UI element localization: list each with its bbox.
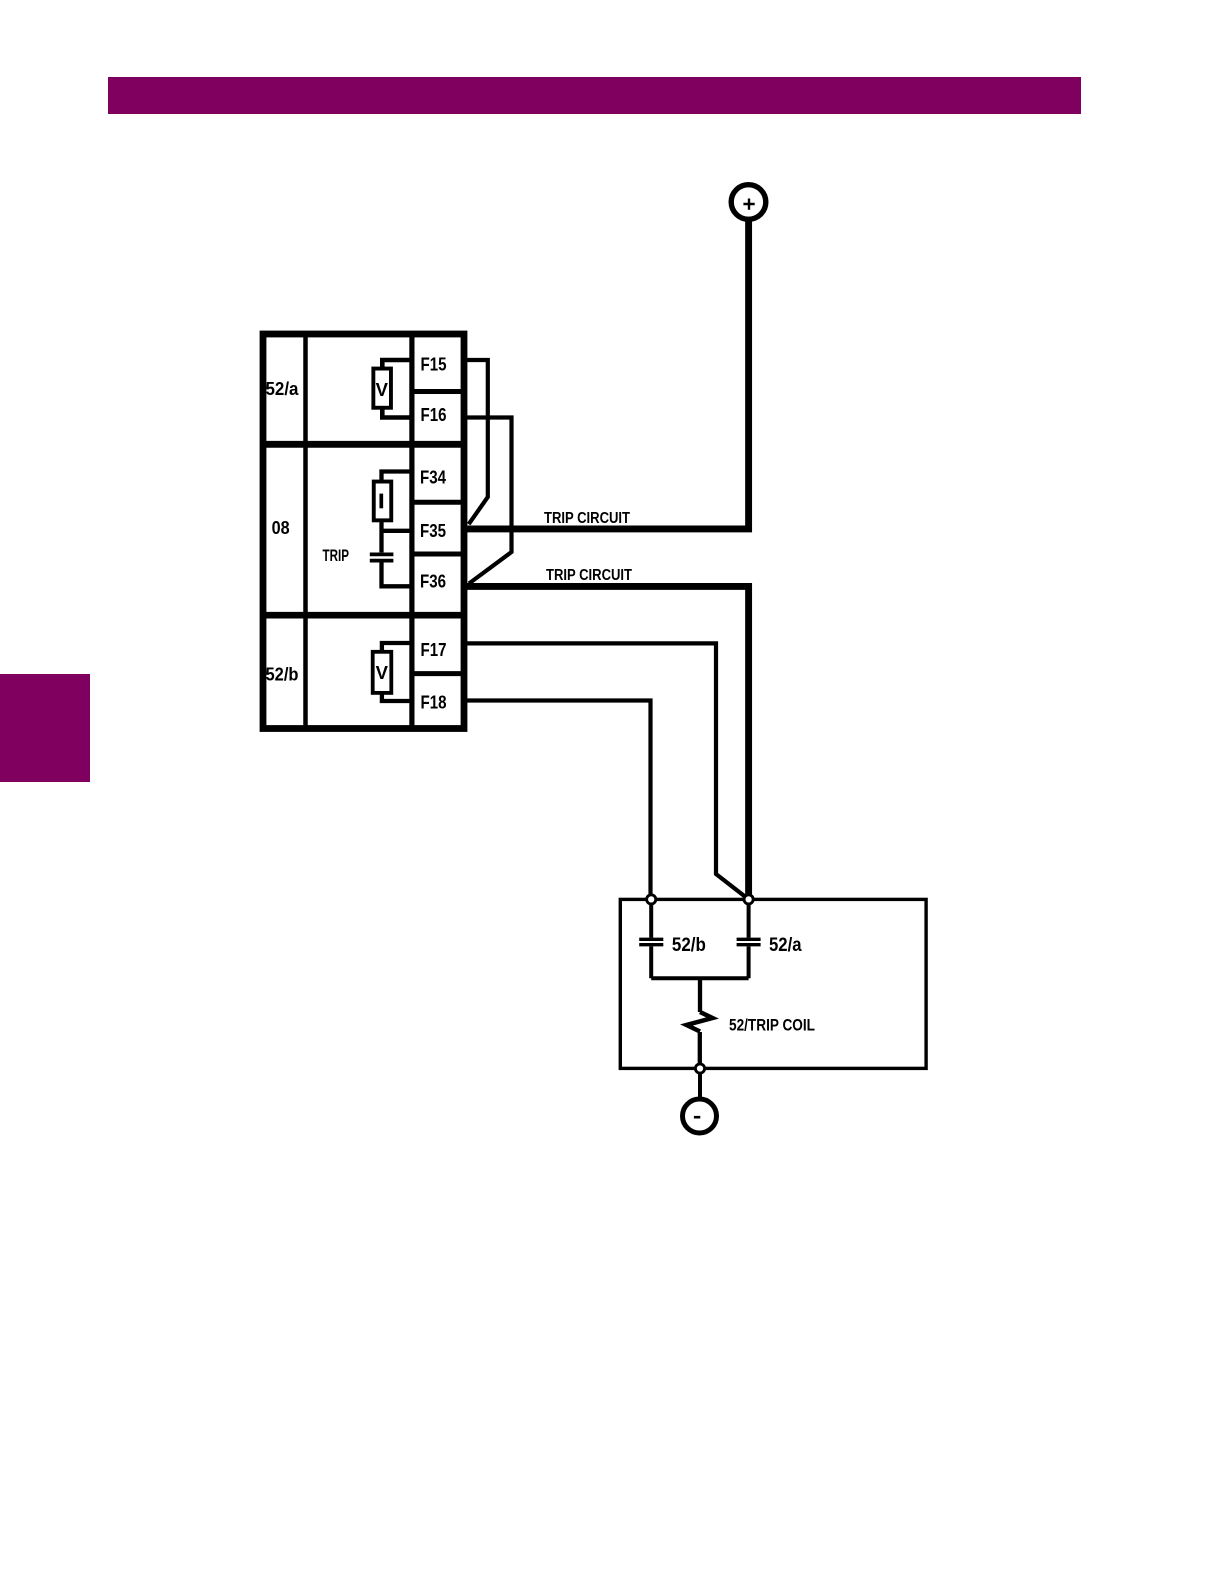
- contact 52/a plates: [737, 938, 761, 941]
- contact 52/b plates: [639, 938, 663, 941]
- wire F18 to 52/b node: [464, 701, 651, 898]
- svg-text:V: V: [376, 379, 389, 400]
- coil I letter: [379, 494, 383, 509]
- row divider 08|52/b: [260, 612, 467, 619]
- svg-text:F16: F16: [421, 405, 447, 425]
- svg-text:TRIP: TRIP: [323, 547, 350, 565]
- coil V lower (52/b): [373, 652, 392, 693]
- wire F15 to F35 junction: [464, 360, 488, 524]
- svg-text:52/a: 52/a: [769, 935, 802, 956]
- node left: [647, 895, 656, 904]
- svg-text:08: 08: [272, 518, 290, 538]
- contact 52/a wire: [747, 899, 751, 978]
- trip circuit wire 1 (F35 to +): [464, 222, 749, 529]
- sidebar block: [0, 674, 90, 782]
- svg-text:52/TRIP COIL: 52/TRIP COIL: [729, 1016, 815, 1035]
- coil V upper (52/a): [373, 369, 391, 408]
- node right: [744, 895, 753, 904]
- svg-text:TRIP CIRCUIT: TRIP CIRCUIT: [546, 567, 632, 584]
- svg-text:52/a: 52/a: [266, 379, 300, 399]
- svg-text:F35: F35: [420, 521, 446, 541]
- breaker box: [620, 899, 926, 1068]
- svg-text:F15: F15: [421, 355, 447, 375]
- relay outer box: [263, 334, 464, 729]
- - terminal: [683, 1099, 717, 1133]
- coil V lower wires: [382, 643, 412, 701]
- svg-text:V: V: [376, 662, 389, 683]
- terminal divider F17/F18: [412, 671, 466, 676]
- terminal divider F15/F16: [412, 389, 466, 394]
- node bottom: [695, 1064, 704, 1073]
- svg-text:52/b: 52/b: [266, 665, 299, 685]
- contact bottom connector: [651, 976, 748, 980]
- minus wire: [698, 1074, 702, 1098]
- header bar: [108, 77, 1081, 114]
- wire F17 to 52/a node: [464, 643, 746, 897]
- wire F16 to F36 junction: [464, 418, 512, 584]
- terminal divider F34/F35: [412, 500, 466, 505]
- svg-text:F34: F34: [420, 468, 446, 488]
- divider terminal column: [409, 331, 414, 728]
- coil I (08): [374, 482, 392, 521]
- row divider 52/a|08: [260, 441, 467, 448]
- svg-text:F36: F36: [420, 572, 446, 592]
- trip circuit wire 2 (F36 to breaker): [464, 586, 749, 897]
- svg-text:TRIP CIRCUIT: TRIP CIRCUIT: [544, 510, 630, 527]
- trip coil zigzag: [687, 1012, 713, 1032]
- capacitor lower wire: [382, 563, 412, 587]
- svg-text:52/b: 52/b: [672, 935, 706, 956]
- trip coil wire upper: [698, 978, 702, 1012]
- divider label column: [303, 331, 308, 728]
- + terminal: [731, 185, 766, 220]
- coil V upper wires: [382, 360, 412, 418]
- coil I wires: [382, 472, 412, 553]
- svg-text:F17: F17: [421, 640, 447, 660]
- capacitor plates: [370, 553, 394, 557]
- trip coil wire lower: [698, 1032, 702, 1063]
- contact 52/b wire: [649, 899, 653, 978]
- terminal divider F35/F36: [412, 552, 466, 557]
- svg-text:F18: F18: [421, 693, 447, 713]
